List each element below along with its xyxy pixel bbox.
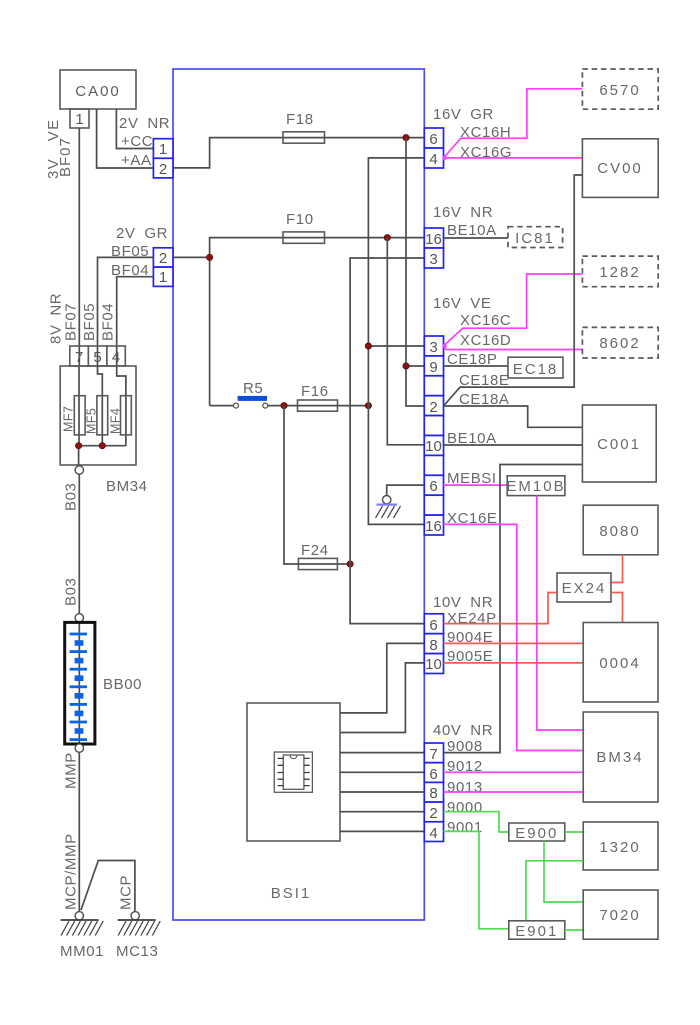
svg-text:EM10B: EM10B [506, 478, 565, 495]
svg-text:+AA: +AA [121, 152, 152, 169]
junction dot BM34 a [76, 443, 82, 449]
connector circle above BB00 [75, 614, 83, 622]
box 7020 [583, 890, 658, 939]
wire 9004E red to 0004 [444, 642, 584, 644]
svg-text:F10: F10 [286, 211, 314, 228]
wire MCP branch [81, 861, 135, 912]
svg-text:2: 2 [159, 250, 167, 267]
wire module to pin 7 40V [340, 752, 424, 754]
BM34 pin 4 [107, 346, 126, 366]
label MF5 vertical [85, 408, 99, 434]
box 8602 dashed [582, 327, 658, 358]
wire XC16G magenta to CV00 [444, 157, 583, 159]
junction dot BM34 b [99, 443, 105, 449]
svg-text:2V GR: 2V GR [116, 225, 168, 242]
wire 9005E red to 0004 [444, 662, 584, 664]
svg-text:6570: 6570 [599, 82, 640, 99]
wire E900 green to 7020 [544, 841, 583, 902]
svg-text:F18: F18 [286, 111, 314, 128]
wire E900 green to 1320 [565, 831, 583, 833]
svg-text:MCP/MMP: MCP/MMP [63, 833, 80, 910]
box CV00 [582, 139, 658, 198]
fuse MF4 [121, 396, 132, 435]
svg-text:6: 6 [429, 131, 437, 148]
svg-text:16: 16 [425, 231, 442, 248]
box BM34 right [583, 712, 658, 802]
label +CC [121, 133, 153, 150]
svg-text:8: 8 [429, 637, 437, 654]
svg-text:MF5: MF5 [85, 408, 99, 434]
svg-text:0004: 0004 [599, 655, 640, 672]
label +AA [121, 152, 152, 169]
ground MC13 [118, 920, 161, 936]
junction dot F18/pin6 [403, 135, 409, 141]
wire F10 to pin 16 [325, 237, 425, 239]
wire MEBSI to ground [387, 485, 425, 495]
box 0004 [583, 623, 658, 703]
wire BF05 net to F10 [173, 238, 283, 406]
box EC18 [508, 357, 563, 378]
fuse F10 [283, 232, 325, 243]
svg-text:MC13: MC13 [116, 943, 158, 960]
label XE24P [447, 610, 497, 627]
wire BE10A pin 10 to C001 [444, 444, 583, 446]
svg-text:XE24P: XE24P [447, 610, 497, 627]
wire CE18P to EC18 [444, 365, 509, 367]
wire +AA net to F18 [173, 138, 283, 168]
svg-text:7020: 7020 [599, 907, 640, 924]
BSI pin 3 (16V NR) [424, 248, 443, 268]
svg-text:+CC: +CC [121, 133, 153, 150]
svg-text:6: 6 [429, 766, 437, 783]
fuse box BM34 outline [60, 366, 136, 465]
box EM10B [506, 476, 565, 496]
svg-text:4: 4 [429, 151, 437, 168]
label XC16E [447, 510, 498, 527]
label 10V NR [433, 594, 493, 611]
connector circle below BB00 [75, 744, 83, 752]
svg-text:1: 1 [159, 141, 167, 158]
svg-text:CA00: CA00 [75, 83, 121, 100]
svg-text:8080: 8080 [599, 523, 640, 540]
junction dot F10 bus [384, 235, 390, 241]
svg-text:BSI1: BSI1 [271, 885, 312, 902]
wire bus x387 down to pin 10 [387, 238, 424, 445]
label BM34 [106, 478, 148, 495]
wire CE18A pin 2 to C001 [444, 406, 583, 427]
wire F24 branch [284, 406, 298, 564]
label CE18E [459, 372, 510, 389]
label BF04 [111, 262, 149, 279]
wire F18 to pin 6 [325, 137, 425, 139]
svg-text:1: 1 [159, 269, 167, 286]
wire XC16E magenta to BM34 [444, 524, 583, 750]
BM34 pin 7 [70, 346, 89, 366]
wire BF04 left to BM34 pin 4 [117, 277, 154, 366]
svg-text:7: 7 [75, 349, 83, 366]
label BE10A lower [447, 430, 497, 447]
svg-text:6: 6 [429, 478, 437, 495]
label 9008 [447, 738, 483, 755]
wire BF07 (CA00 pin1 down to BM34 pin 7) [78, 128, 80, 366]
label CE18P [447, 351, 498, 368]
box E900 [509, 823, 565, 842]
label B03 upper [63, 483, 80, 512]
wire MF4 branch [117, 366, 126, 446]
label MCP vertical [118, 875, 135, 910]
box 6570 dashed [582, 69, 658, 109]
wire module to pin 8 40V [340, 791, 424, 793]
BSI pin 2 (40V) [424, 802, 443, 822]
BSI pin 6 (40V) [424, 763, 443, 783]
BSI pin 7 (40V) [424, 743, 443, 763]
BSI pin 16 (16V NR) [424, 228, 443, 248]
svg-text:BF07: BF07 [57, 137, 74, 177]
wire 9012 magenta to BM34 [444, 771, 584, 773]
wire BF05 left to BM34 pin 5 [98, 257, 154, 366]
wire MF5 branch [98, 366, 103, 446]
svg-text:8: 8 [429, 785, 437, 802]
svg-text:7: 7 [429, 746, 437, 763]
svg-text:MMP: MMP [63, 752, 80, 789]
svg-text:8602: 8602 [599, 335, 640, 352]
junction dot bus x368 pin3 [365, 343, 371, 349]
label BB00 [103, 676, 142, 693]
wire EM10B magenta to BM34 [537, 496, 583, 730]
relay R5 contacts [210, 396, 298, 408]
wire pin3 16V VE stub [368, 345, 424, 347]
wire 9001 green to E901 [444, 831, 509, 928]
fuse MF7 [74, 396, 85, 435]
connector circle below BM34 [75, 466, 83, 474]
magenta terminal pin4 [442, 156, 446, 160]
svg-text:1320: 1320 [599, 839, 640, 856]
box 8080 [583, 505, 658, 555]
wire MF7 branch [78, 366, 80, 446]
svg-text:5: 5 [93, 349, 101, 366]
fuse F24 [298, 558, 337, 569]
wire module to pin 4 40V [340, 830, 424, 832]
label 9001 [447, 819, 483, 836]
svg-text:2: 2 [159, 161, 167, 178]
label R5 [243, 380, 263, 397]
svg-text:EX24: EX24 [562, 580, 607, 597]
ground terminal circle MEBSI [383, 496, 391, 504]
junction dot BF05 [207, 254, 213, 260]
BSI pin 1 (BF04) [153, 267, 173, 286]
label MM01 [60, 943, 104, 960]
label CE18A [459, 391, 510, 408]
svg-text:MF4: MF4 [109, 408, 123, 434]
CA00 pin 1 [70, 109, 89, 128]
svg-text:9000: 9000 [447, 799, 483, 816]
fuse F16 [298, 400, 338, 411]
BSI pin 6 (10V) [424, 614, 443, 634]
box C001 [582, 405, 656, 482]
svg-text:F24: F24 [301, 542, 329, 559]
svg-text:16V GR: 16V GR [433, 106, 494, 123]
svg-text:E901: E901 [515, 923, 558, 940]
wire bus x406 down to pin 9 and pin 2 [406, 138, 424, 406]
svg-text:BM34: BM34 [106, 478, 148, 495]
label XC16H [460, 124, 511, 141]
label MEBSI [447, 470, 497, 487]
wire module to pin 10 10V [340, 663, 424, 733]
wire bus x368 pin4 to pin16 [368, 158, 424, 525]
wire 1320 green to E901 [526, 861, 583, 921]
svg-text:3: 3 [429, 339, 437, 356]
BSI pin 8 (10V) [424, 634, 443, 654]
wire bus x350 pin3 to pin6 [350, 258, 424, 624]
ground MEBSI [376, 505, 401, 518]
BSI pin 1 (+CC) [153, 139, 173, 159]
wire +CC from CA00 to pin 1 [116, 109, 153, 149]
svg-text:2: 2 [429, 399, 437, 416]
wire module to pin 2 40V [340, 811, 424, 813]
label XC16D [460, 332, 511, 349]
box 1320 [583, 822, 658, 870]
BSI pin 8 (40V) [424, 782, 443, 802]
box EX24 [557, 573, 611, 602]
svg-text:BB00: BB00 [103, 676, 142, 693]
wire BE10A to IC81 [444, 237, 509, 239]
svg-text:MF7: MF7 [62, 406, 76, 432]
label 2V NR [119, 115, 170, 132]
label F16 [301, 383, 329, 400]
wire F24 to bus x350 [337, 563, 350, 565]
svg-text:10V NR: 10V NR [433, 594, 493, 611]
label 3V VE [45, 118, 62, 179]
fuse MF5 [97, 396, 108, 435]
svg-text:F16: F16 [301, 383, 329, 400]
wire CE18E from CV00 to pin 2 [444, 175, 583, 406]
ground terminal circle MC13 [131, 912, 139, 920]
BSI pin 4 (40V) [424, 822, 443, 842]
fuse F18 [283, 132, 325, 143]
junction dot F24 bus [347, 561, 353, 567]
wire MEBSI magenta to EM10B [444, 484, 508, 486]
svg-text:2: 2 [429, 805, 437, 822]
label BF07 vertical [63, 303, 80, 341]
label 9000 [447, 799, 483, 816]
svg-text:16: 16 [425, 518, 442, 535]
BM34 pin 5 [88, 346, 107, 366]
ground terminal circle MM01 [75, 912, 83, 920]
svg-text:1: 1 [75, 111, 83, 128]
svg-text:EC18: EC18 [513, 361, 559, 378]
wire EX24 red to 0004 [611, 593, 623, 623]
wire XC16H magenta to 6570 [444, 89, 583, 158]
label 16V NR [433, 204, 493, 221]
wire C001 to pin 7 40V [444, 465, 583, 753]
label F18 [286, 111, 314, 128]
label XC16C [460, 312, 511, 329]
svg-text:IC81: IC81 [515, 230, 555, 247]
svg-text:R5: R5 [243, 380, 263, 397]
svg-text:9: 9 [429, 359, 437, 376]
svg-text:16V NR: 16V NR [433, 204, 493, 221]
svg-text:BF05: BF05 [81, 303, 98, 341]
junction dot R5/F24 [281, 403, 287, 409]
svg-text:3: 3 [429, 251, 437, 268]
ground MM01 [61, 920, 104, 936]
label 9004E [447, 629, 493, 646]
label MC13 [116, 943, 158, 960]
svg-text:BF04: BF04 [100, 303, 117, 341]
battery BB00 [65, 622, 95, 744]
svg-text:C001: C001 [597, 436, 641, 453]
BSI pin 10 (10V) [424, 654, 443, 674]
label 8V NR vertical [48, 293, 65, 344]
wire module to pin 8 10V [340, 643, 424, 713]
svg-text:16V VE: 16V VE [433, 295, 491, 312]
wire BM34 bottom bus [79, 446, 126, 466]
svg-text:BE10A: BE10A [447, 222, 497, 239]
svg-text:MCP: MCP [118, 875, 135, 910]
label F10 [286, 211, 314, 228]
label BF05 [111, 243, 149, 260]
svg-text:2V NR: 2V NR [119, 115, 170, 132]
svg-text:MM01: MM01 [60, 943, 104, 960]
svg-text:B03: B03 [63, 578, 80, 607]
wire XC16D magenta to 8602 [444, 346, 583, 350]
wire E901 green to 7020 [565, 929, 583, 931]
BSI pin stack 16V VE group [424, 336, 443, 535]
BSI pin 2 (BF05) [153, 248, 173, 267]
svg-text:E900: E900 [515, 825, 558, 842]
label 9005E [447, 648, 493, 665]
label MF7 vertical [62, 406, 76, 432]
magenta terminal pin3 [442, 344, 446, 348]
junction dot F16 bus [365, 403, 371, 409]
svg-text:10: 10 [425, 656, 442, 673]
svg-text:BM34: BM34 [596, 749, 643, 766]
wire 9013 magenta to BM34 [444, 791, 584, 793]
BSI1 label [271, 885, 312, 902]
junction dot bus x406 pin9 [403, 363, 409, 369]
label XC16G [460, 144, 512, 161]
BSI pin 2 (+AA) [153, 158, 173, 178]
BSI1 control unit box [173, 69, 424, 920]
box 1282 dashed [582, 256, 658, 287]
wire 8080 red to EX24 [611, 555, 623, 583]
box IC81 dashed [508, 227, 563, 248]
label MCP/MMP vertical [63, 833, 80, 910]
label BF04 vertical [100, 303, 117, 341]
label 16V VE [433, 295, 491, 312]
svg-text:40V NR: 40V NR [433, 722, 493, 739]
svg-text:10: 10 [425, 438, 442, 455]
label B03 lower [63, 578, 80, 607]
label BF07 [57, 137, 74, 177]
BSI pin 6 (16V GR) [424, 128, 443, 148]
connector CA00 [60, 70, 136, 109]
svg-text:XC16C: XC16C [460, 312, 511, 329]
svg-text:9001: 9001 [447, 819, 483, 836]
wire +AA from CA00 to pin 2 [97, 109, 154, 168]
BSI pin 4 (16V GR) [424, 148, 443, 168]
svg-text:1282: 1282 [599, 264, 640, 281]
wire F16 to bus x368 [338, 405, 369, 407]
wire XE24P red to EX24 [444, 593, 558, 624]
label 40V NR [433, 722, 493, 739]
label BE10A upper [447, 222, 497, 239]
label 9012 [447, 758, 483, 775]
svg-text:9013: 9013 [447, 779, 483, 796]
label MF4 vertical [109, 408, 123, 434]
wire XC16C magenta to 1282 [444, 274, 583, 346]
svg-text:6: 6 [429, 617, 437, 634]
wire B03 [78, 474, 80, 613]
svg-text:CV00: CV00 [597, 160, 643, 177]
wire MMP [78, 752, 80, 912]
label BF05 vertical [81, 303, 98, 341]
svg-text:B03: B03 [63, 483, 80, 512]
IC symbol [274, 752, 312, 792]
svg-text:4: 4 [429, 825, 437, 842]
svg-text:BF07: BF07 [63, 303, 80, 341]
wire module to pin 6 40V [340, 771, 424, 773]
BSI inner module box [247, 703, 340, 841]
label 2V GR [116, 225, 168, 242]
wire 9000 green to E900 [444, 812, 509, 832]
label MMP vertical [63, 752, 80, 789]
label F24 [301, 542, 329, 559]
svg-text:XC16D: XC16D [460, 332, 511, 349]
label 9013 [447, 779, 483, 796]
box E901 [509, 921, 565, 940]
label 16V GR [433, 106, 494, 123]
svg-text:4: 4 [112, 349, 120, 366]
